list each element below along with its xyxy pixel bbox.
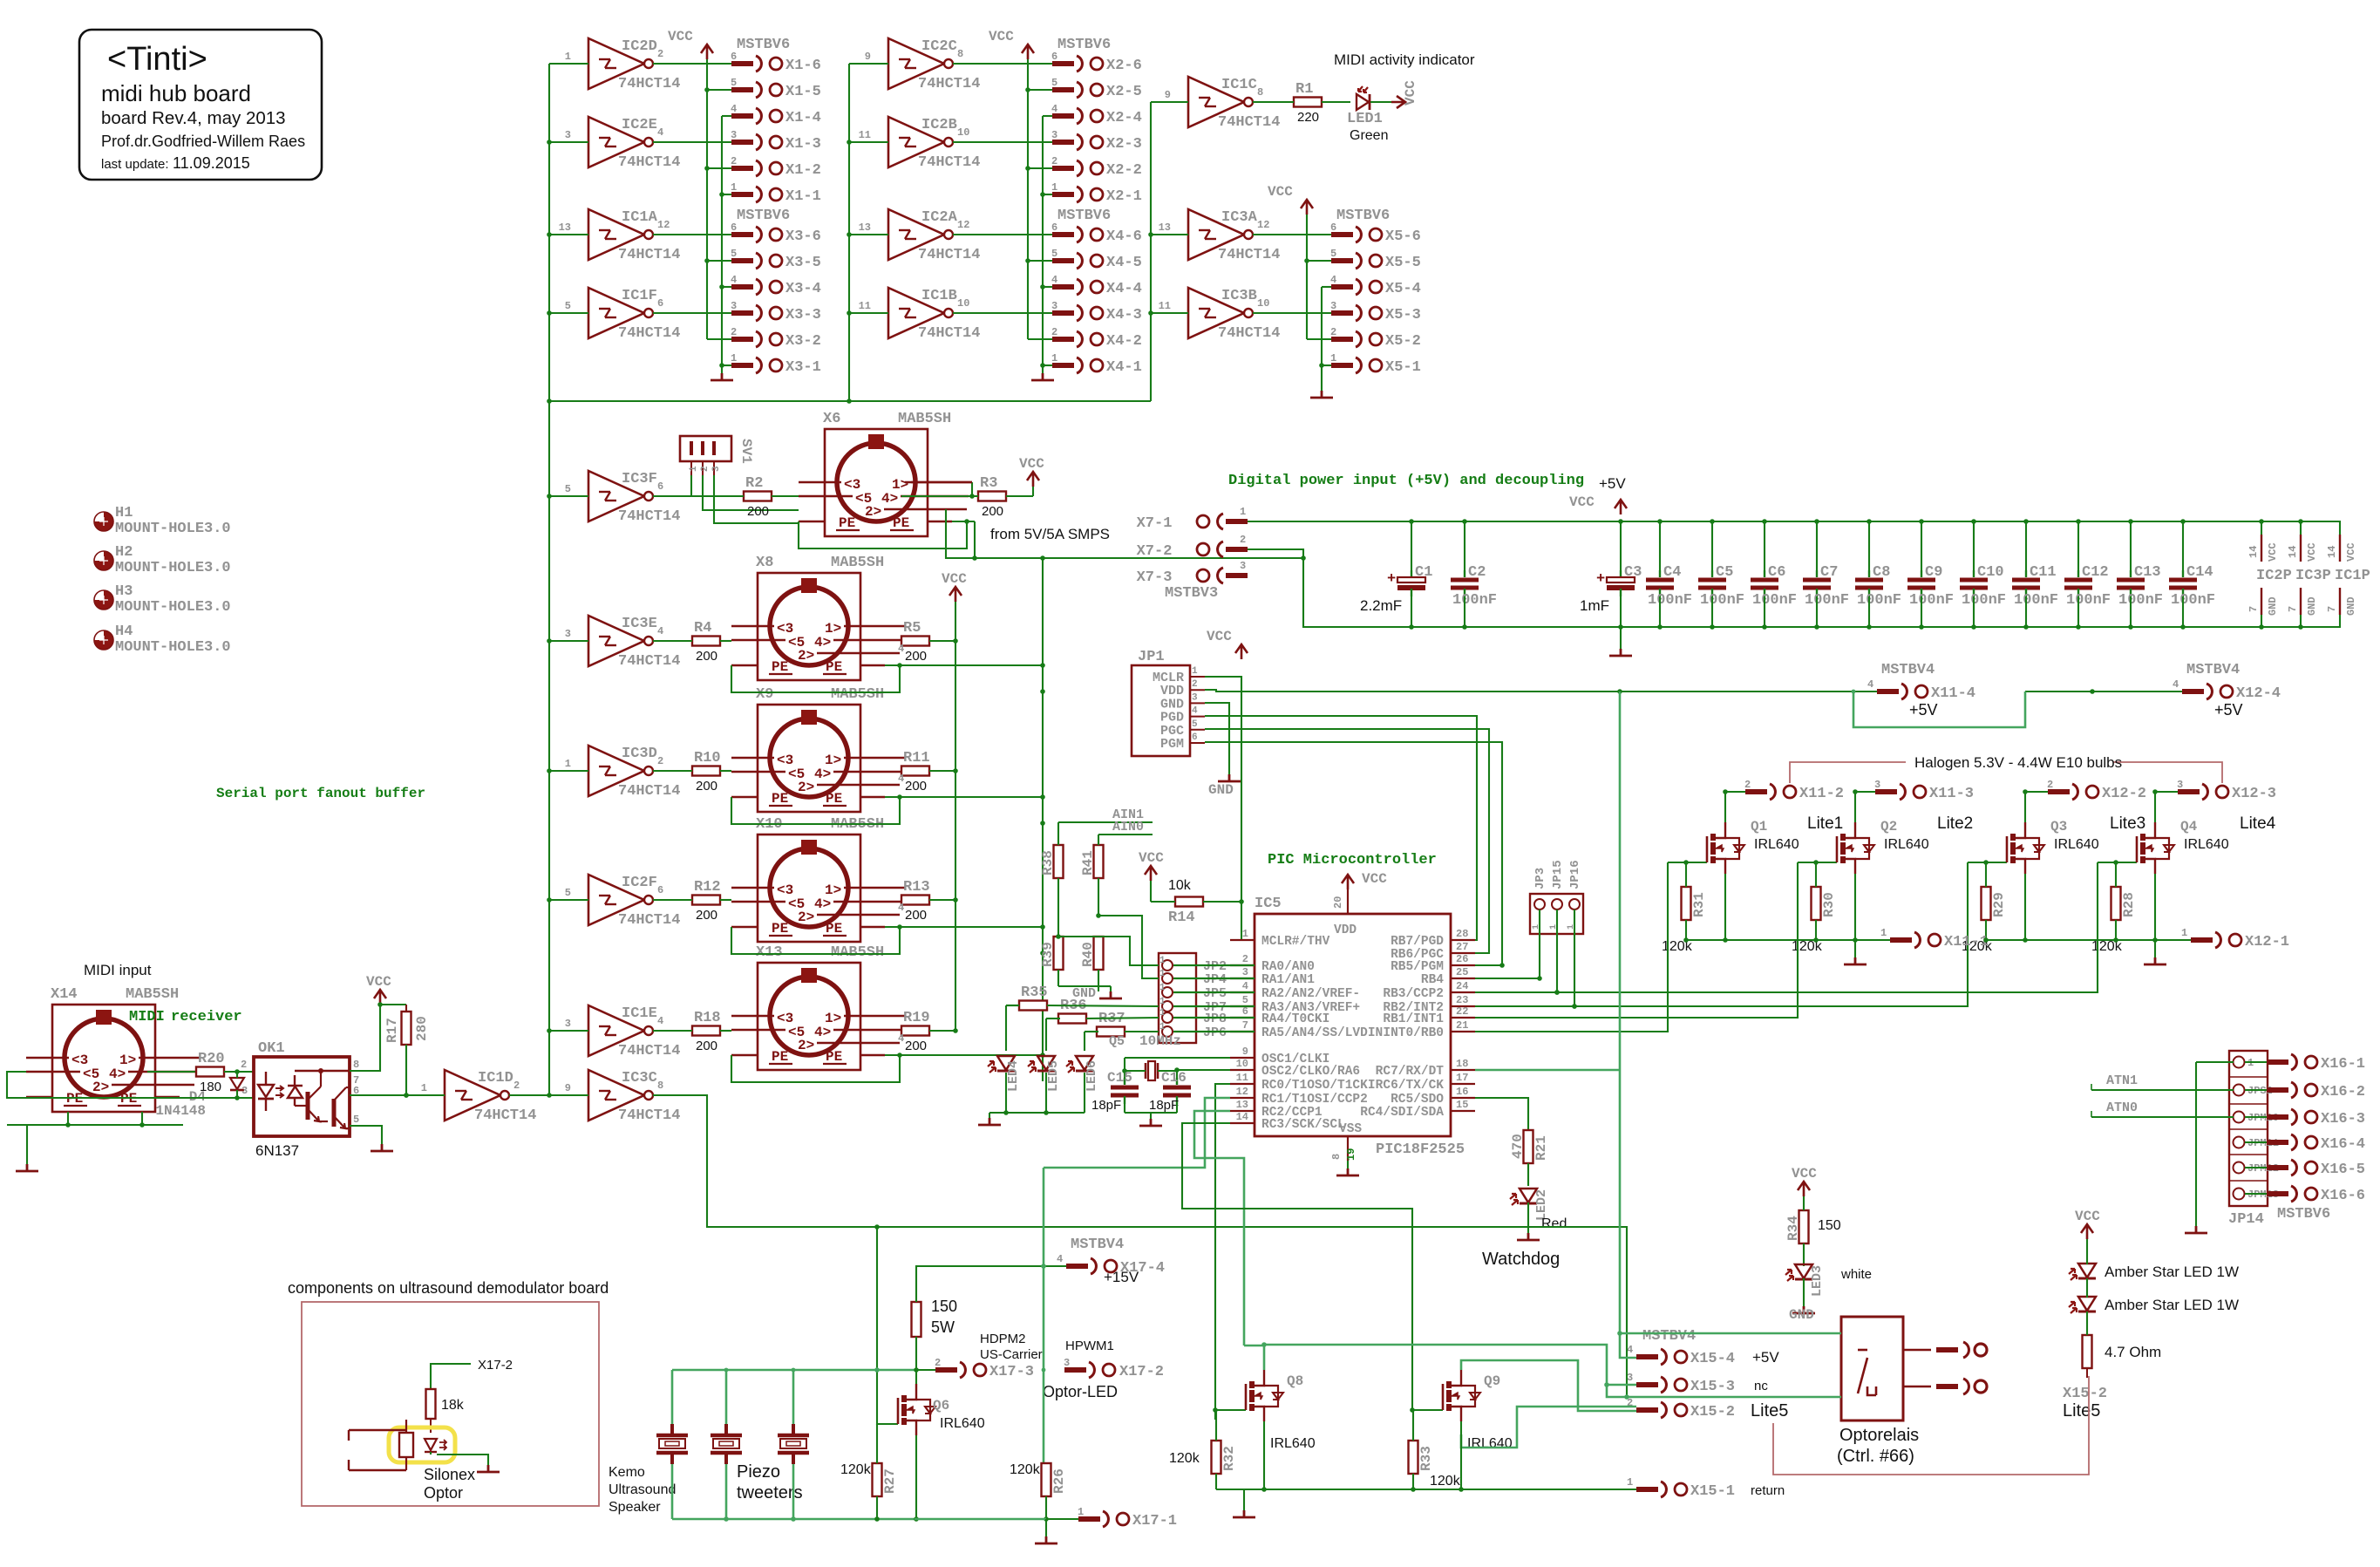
svg-text:VCC: VCC	[989, 29, 1014, 44]
svg-text:150: 150	[931, 1298, 957, 1315]
svg-text:3: 3	[1874, 779, 1880, 791]
svg-text:R31: R31	[1691, 892, 1707, 917]
resistor R33	[1409, 1410, 1461, 1489]
svg-text:nc: nc	[1754, 1379, 1768, 1393]
svg-text:22: 22	[1456, 1005, 1468, 1018]
crystal Q5	[1109, 1033, 1181, 1080]
svg-text:X5-3: X5-3	[1385, 307, 1421, 324]
svg-text:GND: GND	[1789, 1307, 1814, 1323]
label Red	[1541, 1216, 1567, 1231]
led LED4	[988, 1056, 1021, 1092]
wire atn1 in	[2091, 1073, 2234, 1090]
svg-text:IC2P: IC2P	[2256, 568, 2292, 584]
svg-text:1: 1	[1159, 997, 1166, 1007]
svg-text:200: 200	[905, 779, 927, 794]
connector X7-1	[1137, 506, 1248, 532]
wire led4 up	[1006, 1005, 1019, 1051]
svg-text:3: 3	[565, 129, 571, 141]
svg-text:100nF: 100nF	[2014, 592, 2058, 609]
connector X12-1	[2181, 927, 2289, 950]
svg-text:3: 3	[1330, 300, 1336, 312]
transistor Q3 circuit	[1962, 779, 2146, 954]
svg-text:2: 2	[657, 48, 663, 60]
svg-text:3: 3	[1242, 966, 1248, 978]
svg-text:Prof.dr.Godfried-Willem Raes: Prof.dr.Godfried-Willem Raes	[101, 133, 305, 150]
resistor 150 5W	[912, 1298, 958, 1337]
svg-text:R12: R12	[694, 879, 721, 896]
svg-text:1: 1	[1880, 927, 1887, 939]
wire q6 source	[914, 1435, 919, 1522]
label Optorelais	[1837, 1426, 1919, 1466]
wire gate q2	[1475, 862, 1798, 1018]
wire bright 5v elbow	[1852, 690, 2025, 727]
svg-text:6: 6	[657, 297, 663, 310]
connector X15-4	[1627, 1328, 1779, 1367]
svg-text:5: 5	[1242, 994, 1248, 1006]
svg-text:X17-3: X17-3	[989, 1364, 1034, 1380]
ground C3	[1609, 627, 1632, 656]
svg-text:200: 200	[696, 908, 717, 923]
svg-text:1: 1	[1159, 1008, 1166, 1019]
wire X6 pe loop	[799, 519, 977, 561]
svg-text:X12-1: X12-1	[2245, 934, 2289, 950]
svg-text:MSTBV6: MSTBV6	[737, 37, 790, 53]
svg-text:C14: C14	[2186, 564, 2213, 581]
wire q9 drain up	[1461, 1360, 1636, 1411]
svg-text:RC5/SDO: RC5/SDO	[1391, 1093, 1444, 1107]
svg-text:X15-1: X15-1	[1690, 1483, 1735, 1500]
svg-text:Optor: Optor	[424, 1484, 463, 1502]
svg-text:X5-4: X5-4	[1385, 281, 1421, 297]
svg-text:2: 2	[241, 1059, 247, 1071]
connector X16-5	[2267, 1160, 2365, 1178]
wire r17 out	[404, 1045, 409, 1098]
svg-text:1: 1	[1159, 983, 1166, 993]
svg-text:IRL640: IRL640	[1754, 837, 1799, 852]
resistor R38	[1040, 822, 1064, 937]
wire led5 up	[1046, 1019, 1058, 1051]
svg-text:<Tinti>: <Tinti>	[107, 41, 207, 78]
svg-text:4>: 4>	[814, 635, 831, 651]
svg-text:board Rev.4, may 2013: board Rev.4, may 2013	[101, 108, 286, 128]
svg-text:X4-1: X4-1	[1106, 359, 1142, 376]
svg-text:6: 6	[657, 884, 663, 896]
svg-text:X11-3: X11-3	[1929, 786, 1974, 802]
capacitor C10	[1960, 521, 2006, 627]
svg-text:74HCT14: 74HCT14	[618, 325, 680, 342]
inverter IC1D	[421, 1070, 549, 1124]
svg-text:Green: Green	[1350, 128, 1388, 143]
svg-text:X1-3: X1-3	[785, 136, 821, 153]
resistor R2	[653, 475, 799, 519]
connector X7-2	[1137, 534, 1248, 560]
svg-text:5: 5	[565, 483, 571, 495]
svg-text:100nF: 100nF	[2171, 592, 2215, 609]
svg-text:X1-5: X1-5	[785, 84, 821, 100]
svg-text:3: 3	[1192, 692, 1198, 703]
wire pe loop	[731, 924, 1045, 954]
label MIDI receiver	[129, 1009, 242, 1025]
svg-text:R11: R11	[903, 750, 930, 766]
svg-text:1: 1	[1159, 969, 1166, 979]
svg-text:3: 3	[2177, 779, 2183, 791]
inverter IC1F	[549, 288, 680, 342]
inverter IC1C	[1151, 77, 1280, 131]
svg-text:1: 1	[1242, 928, 1248, 940]
connector X16-4	[2267, 1134, 2365, 1153]
svg-text:74HCT14: 74HCT14	[1218, 325, 1280, 342]
svg-text:MSTBV6: MSTBV6	[2277, 1206, 2330, 1223]
svg-text:+5V: +5V	[1752, 1349, 1779, 1366]
svg-text:X4-2: X4-2	[1106, 333, 1142, 350]
svg-text:Lite4: Lite4	[2240, 814, 2276, 833]
svg-text:MAB5SH: MAB5SH	[126, 986, 179, 1003]
svg-text:1: 1	[731, 181, 737, 194]
wire inv out col3	[1253, 234, 1331, 235]
svg-text:MIDI input: MIDI input	[84, 962, 152, 978]
resistor R21	[1510, 1130, 1549, 1186]
vcc 1096	[942, 571, 967, 602]
svg-text:Optor-LED: Optor-LED	[1043, 1383, 1118, 1400]
svg-text:10MHz: 10MHz	[1139, 1033, 1181, 1049]
svg-text:2: 2	[1744, 779, 1751, 791]
label ok1 pins	[353, 1059, 359, 1126]
svg-text:X7-3: X7-3	[1137, 569, 1173, 586]
svg-text:MSTBV4: MSTBV4	[1642, 1328, 1696, 1345]
svg-text:MAB5SH: MAB5SH	[898, 411, 951, 427]
label MIDI input	[84, 962, 152, 978]
connector SV1	[680, 436, 754, 475]
svg-text:20: 20	[1332, 896, 1344, 909]
svg-text:R10: R10	[694, 750, 721, 766]
svg-text:8: 8	[1330, 1154, 1343, 1160]
ground LED2	[1517, 1233, 1540, 1240]
svg-text:R39: R39	[1040, 942, 1056, 967]
wire ic3c out	[653, 1095, 1629, 1400]
svg-text:1: 1	[1159, 1022, 1166, 1032]
svg-text:Amber Star LED 1W: Amber Star LED 1W	[2105, 1264, 2239, 1280]
svg-text:IRL640: IRL640	[2054, 837, 2099, 852]
svg-text:2: 2	[1051, 155, 1057, 167]
connector X5 pins	[1307, 208, 1421, 376]
connector JP2 JP4 JP5 JP7 JP8 JP6	[1159, 953, 1255, 1043]
svg-text:JP8: JP8	[1203, 1012, 1227, 1026]
svg-text:2: 2	[1240, 534, 1246, 546]
svg-text:X12-4: X12-4	[2236, 685, 2281, 702]
svg-text:IC3C: IC3C	[622, 1070, 657, 1087]
svg-text:8: 8	[1257, 86, 1263, 99]
svg-text:1: 1	[565, 51, 571, 63]
svg-text:100nF: 100nF	[2118, 592, 2163, 609]
svg-text:18: 18	[1456, 1058, 1468, 1070]
ground silonex	[477, 1465, 500, 1472]
optorelais pin top	[1903, 1342, 1987, 1358]
svg-text:RC6/TX/CK: RC6/TX/CK	[1376, 1079, 1445, 1093]
svg-text:7: 7	[2287, 606, 2299, 612]
svg-text:VCC: VCC	[1268, 184, 1293, 200]
wire serial trunk col3	[1148, 102, 1153, 401]
power pins IC2P	[2247, 521, 2292, 627]
svg-text:1: 1	[565, 758, 571, 770]
svg-text:8: 8	[657, 1080, 663, 1092]
svg-text:R28: R28	[2121, 892, 2137, 917]
svg-text:10k: 10k	[1168, 878, 1192, 893]
svg-text:74HCT14: 74HCT14	[618, 508, 680, 525]
label hdpm2	[980, 1332, 1043, 1362]
svg-text:200: 200	[696, 1039, 717, 1053]
svg-text:120k: 120k	[1430, 1474, 1461, 1489]
svg-text:R21: R21	[1533, 1135, 1549, 1161]
svg-text:3: 3	[1627, 1372, 1633, 1384]
svg-text:14: 14	[2247, 546, 2260, 558]
svg-text:13: 13	[1159, 221, 1171, 234]
svg-text:IC2C: IC2C	[921, 38, 957, 55]
svg-text:IC2D: IC2D	[622, 38, 657, 55]
svg-text:4: 4	[1627, 1344, 1633, 1356]
svg-text:Optorelais: Optorelais	[1839, 1426, 1919, 1445]
wire c15 c16 gnd	[1125, 1104, 1177, 1119]
svg-text:X3-2: X3-2	[785, 333, 821, 350]
svg-text:2: 2	[1192, 679, 1198, 690]
title board rev	[101, 108, 286, 128]
svg-text:X2-5: X2-5	[1106, 84, 1142, 100]
connector X1 pins	[707, 37, 821, 205]
wire r27	[874, 1424, 880, 1522]
svg-text:X3-6: X3-6	[785, 228, 821, 245]
wire inv out col1	[653, 63, 731, 65]
label Watchdog	[1482, 1250, 1560, 1269]
svg-text:Kemo: Kemo	[609, 1465, 645, 1480]
svg-text:X12-3: X12-3	[2232, 786, 2276, 802]
svg-text:Q1: Q1	[1751, 819, 1767, 835]
inverter IC2A	[849, 209, 980, 263]
svg-text:MSTBV6: MSTBV6	[1057, 37, 1111, 53]
wire 150 up	[916, 1264, 1067, 1302]
connector X16-2	[2267, 1082, 2365, 1100]
svg-text:5: 5	[731, 77, 737, 89]
capacitor C5	[1698, 521, 1744, 627]
inverter IC3D	[549, 746, 680, 800]
connector JP3 JP15 JP16	[1530, 860, 1583, 934]
wire rb4	[1475, 978, 1540, 979]
wire 150 down	[914, 1367, 919, 1373]
inverter IC2E	[549, 117, 680, 171]
capacitor C6	[1751, 521, 1797, 627]
svg-text:4: 4	[898, 1032, 904, 1045]
svg-text:MSTBV4: MSTBV4	[1071, 1237, 1124, 1253]
svg-text:17: 17	[1456, 1072, 1468, 1084]
svg-text:X16-6: X16-6	[2321, 1188, 2365, 1204]
wire pe loop	[731, 794, 1045, 824]
svg-text:VCC: VCC	[1569, 494, 1595, 510]
optorelais switch	[1858, 1350, 1876, 1395]
wire x17-3 stub	[916, 1369, 935, 1371]
svg-text:RC7/RX/DT: RC7/RX/DT	[1376, 1065, 1445, 1079]
svg-text:100nF: 100nF	[1648, 592, 1692, 609]
svg-text:VDD: VDD	[1334, 923, 1357, 937]
label piezo tweeters	[737, 1462, 803, 1502]
svg-text:100nF: 100nF	[1452, 592, 1497, 609]
svg-text:X16-5: X16-5	[2321, 1162, 2365, 1178]
svg-text:R40: R40	[1080, 942, 1096, 967]
svg-text:PGM: PGM	[1160, 737, 1184, 752]
svg-text:MSTBV3: MSTBV3	[1165, 585, 1218, 602]
capacitor C13	[2117, 521, 2163, 627]
inverter IC3F	[549, 471, 680, 525]
svg-text:18k: 18k	[441, 1398, 465, 1413]
mount hole H1	[94, 505, 231, 537]
wire vcc r17	[380, 1005, 406, 1012]
svg-text:IRL640: IRL640	[1884, 837, 1929, 852]
svg-text:10: 10	[1236, 1058, 1248, 1070]
wire rc1 down	[1044, 1098, 1230, 1168]
svg-text:VCC: VCC	[2306, 542, 2318, 562]
svg-text:X2-6: X2-6	[1106, 58, 1142, 74]
svg-text:6N137: 6N137	[255, 1142, 299, 1159]
svg-text:GND: GND	[2267, 596, 2279, 616]
svg-text:MOUNT-HOLE3.0: MOUNT-HOLE3.0	[115, 639, 231, 656]
vcc X5	[1268, 184, 1313, 339]
ground OK1	[371, 1144, 393, 1151]
capacitor C12	[2064, 521, 2111, 627]
svg-text:5: 5	[1051, 248, 1057, 260]
svg-text:74HCT14: 74HCT14	[1218, 247, 1280, 263]
svg-text:X12-2: X12-2	[2102, 786, 2146, 802]
svg-text:74HCT14: 74HCT14	[618, 653, 680, 670]
svg-text:4>: 4>	[881, 491, 898, 507]
vcc PIC	[1342, 871, 1387, 889]
wire +5v x15 vertical	[1617, 692, 1841, 1358]
ground x12	[2144, 940, 2166, 964]
svg-text:IC2E: IC2E	[622, 117, 657, 133]
svg-text:3: 3	[1051, 300, 1057, 312]
wire SV1 pin1	[690, 475, 692, 496]
svg-text:H1: H1	[115, 505, 133, 521]
svg-text:MOUNT-HOLE3.0: MOUNT-HOLE3.0	[115, 560, 231, 576]
svg-text:Q5: Q5	[1109, 1034, 1125, 1049]
transistor Q9	[1412, 1370, 1513, 1451]
wire inv out col2b	[953, 312, 1052, 314]
svg-text:18pF: 18pF	[1149, 1098, 1179, 1113]
svg-text:VCC: VCC	[1362, 871, 1387, 887]
resistor R37	[1097, 1011, 1125, 1037]
svg-text:Q6: Q6	[933, 1398, 949, 1414]
svg-text:2>: 2>	[798, 780, 814, 795]
wire R39 R40 gnd	[1058, 986, 1098, 991]
svg-text:C3: C3	[1624, 564, 1642, 581]
wire q6 gate	[877, 1370, 890, 1424]
svg-text:VCC: VCC	[1019, 456, 1044, 472]
svg-text:4>: 4>	[109, 1066, 126, 1082]
svg-text:VCC: VCC	[1139, 850, 1164, 866]
svg-text:4: 4	[657, 1015, 663, 1027]
svg-text:JP16: JP16	[1568, 860, 1582, 889]
resistor R20	[196, 1051, 254, 1094]
svg-text:R18: R18	[694, 1010, 721, 1026]
label optor-led	[1043, 1383, 1118, 1400]
svg-text:VSS: VSS	[1339, 1122, 1362, 1136]
wire JP1 gnd pin	[1205, 703, 1229, 774]
svg-text:3: 3	[565, 1018, 571, 1030]
svg-text:74HCT14: 74HCT14	[618, 1043, 680, 1059]
capacitor C7	[1803, 521, 1849, 627]
resistor 4.7ohm	[2083, 1312, 2092, 1378]
wire +5V rail	[1248, 519, 2341, 524]
wire ok1 pin8	[350, 1005, 380, 1071]
svg-text:120k: 120k	[2091, 939, 2123, 954]
svg-text:+: +	[1387, 571, 1396, 588]
svg-text:Speaker: Speaker	[609, 1500, 661, 1515]
svg-text:R20: R20	[198, 1051, 225, 1067]
vcc amber	[2075, 1209, 2100, 1239]
svg-text:4.7 Ohm: 4.7 Ohm	[2105, 1344, 2161, 1360]
svg-text:4: 4	[898, 902, 904, 914]
wire inv out col2	[953, 63, 1052, 65]
ground leds	[978, 1113, 1001, 1125]
svg-text:GND: GND	[2306, 596, 2318, 616]
wire ok1 pin5	[350, 1126, 382, 1144]
svg-text:Silonex: Silonex	[424, 1466, 475, 1483]
svg-text:4: 4	[731, 103, 737, 115]
capacitor C2	[1451, 521, 1497, 627]
piezo 1	[656, 1424, 688, 1464]
svg-text:+: +	[1596, 571, 1605, 588]
svg-text:21: 21	[1456, 1019, 1468, 1032]
svg-text:1N4148: 1N4148	[155, 1103, 206, 1119]
wire pe loop	[731, 1053, 1045, 1082]
svg-text:IC1F: IC1F	[622, 288, 657, 304]
inverter IC2C	[849, 38, 980, 92]
svg-text:Ultrasound: Ultrasound	[609, 1482, 676, 1497]
wire inv out col1	[653, 141, 731, 143]
svg-text:AIN0: AIN0	[1112, 820, 1144, 835]
wire R35 jp	[1047, 1005, 1159, 1006]
svg-text:IC3F: IC3F	[622, 471, 657, 487]
led LED6	[1066, 1056, 1099, 1092]
svg-text:74HCT14: 74HCT14	[918, 247, 980, 263]
svg-text:4: 4	[898, 643, 904, 655]
svg-text:11.09.2015: 11.09.2015	[173, 154, 250, 172]
wire JP1 pgc	[1205, 729, 1489, 953]
svg-text:C12: C12	[2082, 564, 2109, 581]
wire hpwm down	[876, 1227, 878, 1370]
resistor R26	[1010, 1462, 1067, 1496]
svg-text:R17: R17	[384, 1018, 400, 1043]
transistor Q6	[877, 1384, 985, 1435]
svg-text:2: 2	[731, 326, 737, 338]
svg-text:1: 1	[689, 466, 699, 472]
svg-text:C9: C9	[1925, 564, 1942, 581]
svg-text:X6: X6	[823, 411, 840, 427]
svg-text:19: 19	[1345, 1148, 1357, 1161]
svg-text:white: white	[1840, 1267, 1872, 1282]
svg-text:2: 2	[731, 155, 737, 167]
connector JP1	[1132, 649, 1205, 756]
svg-text:X15-4: X15-4	[1690, 1351, 1735, 1367]
wire gate q3	[1475, 862, 1968, 1009]
ground q8	[1243, 1489, 1245, 1510]
svg-text:X5-5: X5-5	[1385, 255, 1421, 271]
wire piezo drops	[672, 1368, 795, 1434]
svg-text:VCC: VCC	[1792, 1166, 1817, 1182]
svg-text:74HCT14: 74HCT14	[618, 76, 680, 92]
svg-text:1mF: 1mF	[1580, 597, 1609, 614]
wire gate q1	[1475, 862, 1668, 1032]
wire gate q4	[1475, 862, 2098, 995]
svg-text:4: 4	[1192, 706, 1198, 717]
svg-text:X13: X13	[756, 944, 783, 961]
svg-text:C2: C2	[1468, 564, 1486, 581]
